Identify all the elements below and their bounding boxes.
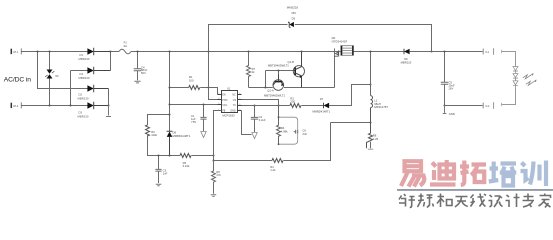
diode D7 MMBD4148T1 [312,97,330,113]
wire PWM row U1 to R2 [242,105,290,107]
zener rail to top loop [209,25,432,52]
watermark small char 9: Jia [539,194,551,208]
resistor R4b 4.99k with C6 snubber loop [277,106,308,146]
main rail fuse to MOSFET [131,51,341,53]
wire VCC row x169 to U1 [170,104,218,106]
MOSFET M1 NTGS4141P [332,36,354,56]
ground triangle below C1 [201,132,206,138]
wire D6 to output [410,51,483,53]
svg-text:MMSZ18: MMSZ18 [287,6,299,10]
svg-text:2.2uF: 2.2uF [259,118,266,122]
terminal J2-2 (LED-) [483,102,493,109]
wire FB pin to divider [214,111,222,156]
watermark small char 6: She2 [489,195,503,207]
node x169 R1 [169,87,171,89]
svg-text:NTGS4141P: NTGS4141P [332,39,348,43]
svg-text:VCC: VCC [222,105,227,107]
resistor R2 200 [290,97,301,108]
node rail L1 top [370,51,372,53]
node CS junction [278,105,280,107]
svg-text:MBR120: MBR120 [401,60,412,64]
node bridge neg [108,105,110,107]
node FB lower [213,160,215,162]
watermark big char 5: Xun (blue) [521,161,547,187]
svg-text:M1: M1 [332,36,336,40]
svg-text:MSS1278T: MSS1278T [374,105,388,109]
svg-text:5: 5 [239,109,240,111]
svg-text:6A: 6A [124,44,128,48]
svg-text:D5: D5 [292,16,296,20]
node rail x37 [37,51,39,53]
svg-text:MBT3946DWLT1: MBT3946DWLT1 [268,63,290,67]
node TVS bottom [49,105,51,107]
watermark small char 3: He [437,194,452,208]
node switch at L1 [370,84,372,86]
ground below R6 [211,195,216,197]
inductor L1 68uH [371,52,389,123]
svg-text:R4: R4 [281,126,285,130]
wire GND pin to C2 ground [242,111,252,135]
svg-text:GND: GND [449,112,455,116]
svg-text:EN: EN [222,95,226,97]
wire emitter row [249,87,335,89]
svg-text:AC/DC in: AC/DC in [4,76,31,83]
LED D12 [513,81,518,88]
main rail MOSFET to D6 [354,51,405,53]
svg-text:7: 7 [239,98,240,100]
svg-text:100: 100 [189,78,194,82]
svg-text:CS: CS [233,100,237,102]
watermark small char 8: Zhuan [523,194,535,208]
wire CS pin row [242,100,279,106]
node D8 bottom row [169,155,171,157]
svg-text:3: 3 [218,103,219,105]
svg-text:110k: 110k [151,133,157,137]
wire output return [445,105,483,107]
node rail C4 [137,51,139,53]
watermark small char 7: Ji [506,194,520,208]
wire sense row to L1 [331,122,371,124]
wire input top to bridge [21,51,88,53]
resistor R7 2k [247,52,256,88]
terminal J1-1 (AC input top) [11,48,21,54]
svg-text:8: 8 [239,93,240,95]
svg-text:1.2k: 1.2k [270,168,276,172]
wire R5 to FB node [192,155,214,157]
wire D7 to switch node [329,85,370,106]
svg-text:MBT3946DWLT1: MBT3946DWLT1 [264,94,286,98]
svg-text:D-2: D-2 [486,106,490,108]
capacitor C4 68nF 50V [134,52,148,81]
svg-text:2: 2 [218,98,219,100]
LED D11 [513,74,518,81]
svg-text:0.25: 0.25 [373,137,379,141]
capacitor C2 2.2uF [251,106,266,133]
svg-text:MBR130: MBR130 [79,76,90,80]
zener diode D5 MMSZ18 15V [287,6,299,28]
tick LED loop ends [501,50,503,107]
svg-text:MBR130: MBR130 [78,97,89,101]
svg-text:16V: 16V [448,86,453,90]
svg-text:200: 200 [290,100,295,104]
diode D1 MBR130 [79,48,111,61]
terminal J2-1 (LED+) [483,48,493,55]
wire gate column [334,56,336,88]
wire input bottom to bridge [21,105,88,107]
node C2 top [254,105,256,107]
capacitor C1 1uF [191,105,207,132]
svg-text:15V: 15V [291,11,296,15]
diode D4 MBR130 [79,67,111,80]
ground below R8 [368,148,373,150]
resistor R5 3.24k [180,154,191,168]
watermark small char 4: Tian [455,197,468,208]
wire VIN column from rail [209,52,218,100]
resistor R3 110k [146,125,158,137]
node rail top loop right [431,51,433,53]
node rail Q1-B collector [301,51,303,53]
svg-text:MMBD4148T1: MMBD4148T1 [173,134,191,138]
terminal J1-2 (AC input bottom) [11,102,21,108]
wire R3 branch [148,115,170,126]
wire R2 to D7 [301,105,323,107]
resistor R6 27k [212,161,222,194]
diode D2 MBR130 [78,85,109,101]
svg-text:27k: 27k [216,173,221,177]
svg-text:50V: 50V [141,71,146,75]
watermark divider line [397,189,553,191]
node rail R7 [248,51,250,53]
node rail x169 [169,51,171,53]
wire R3 bottom to feedback row [148,135,181,155]
watermark big char 4: Pei (blue) [489,162,517,186]
wire FB jog down [213,156,215,161]
svg-text:Q1-B: Q1-B [288,60,295,64]
diode D3 MBR130 [78,102,109,119]
node C1 top [203,104,205,106]
svg-text:2nF: 2nF [302,132,307,136]
svg-text:Q1-A: Q1-A [267,89,274,93]
svg-text:1: 1 [218,93,219,95]
capacitor C5 10uF 16V [441,52,455,106]
wire bridge to fuse [111,51,120,53]
node x169 VCC row [169,104,171,106]
node C5 bottom [444,105,446,107]
wire column line1 to D2 row [38,52,88,89]
wire column line2 to D4 row [71,71,88,106]
node FB join [213,155,215,157]
node rail C5 [444,51,446,53]
svg-text:NC: NC [232,95,236,97]
node C3 top [158,155,160,157]
node bridge pos [110,51,112,53]
transistor Q1-B MBT3946DWLT1 [268,52,305,88]
svg-text:MMBD4148T1: MMBD4148T1 [312,110,330,114]
node line2 bottom [70,105,72,107]
svg-text:MCP1630: MCP1630 [222,114,235,118]
wire startup column x169 [169,52,171,132]
svg-text:MBR130: MBR130 [78,115,89,119]
watermark big char 1: Yi (pink) [401,161,424,186]
wire R1 to VIN column [200,87,208,89]
node rail x208 [208,51,210,53]
net label GND [443,106,455,117]
LED D10 [513,66,518,73]
svg-text:4.99k: 4.99k [281,130,288,134]
node R1 junction [208,87,210,89]
wire Q1 base bus [266,71,295,88]
capacitor C3 1nF [155,156,167,184]
node Q1-A base tap [278,70,280,72]
svg-text:D9: D9 [56,76,60,78]
watermark small char 2: Pin [418,194,434,208]
transistor Q1-A MBT3946DWLT1 [264,75,286,98]
wire R1 row [170,87,189,89]
wire bridge negative bus [108,89,110,106]
node TVS top [49,51,51,53]
svg-text:6: 6 [239,104,240,106]
svg-text:D7: D7 [320,97,324,101]
node x169 R3 branch [169,114,171,116]
node base bus left [265,87,267,89]
ground below C3 [156,184,162,186]
wire EN pin feed [209,88,218,95]
svg-text:Y5V: Y5V [191,120,196,124]
IC U1 MCP1630 [218,86,242,117]
svg-text:1nF: 1nF [163,172,168,176]
watermark small char 1: She [399,194,415,208]
resistor R1 100 [189,75,200,89]
svg-text:1H-2: 1H-2 [13,106,19,108]
watermark big char 3: Tuo (pink) [460,161,486,186]
wire R4 to sense column [284,123,331,161]
resistor R4 1.2k [270,159,283,172]
diode D8 MMBD4148T1 [167,131,191,156]
svg-text:3.24k: 3.24k [183,164,190,168]
resistor R8 0.25 [367,123,379,149]
wire FB row right [214,160,273,162]
svg-text:MBR130: MBR130 [79,57,90,61]
wire LED string loop [502,52,516,105]
TVS diode D9 across input [45,52,59,106]
wire bridge positive bus [110,52,112,71]
svg-text:FB: FB [222,111,225,113]
svg-text:GND: GND [230,111,235,113]
svg-text:TC: TC [233,105,236,107]
svg-text:1H-1: 1H-1 [13,52,19,54]
fuse F1 6A [119,41,131,54]
node sense at L1 [370,122,372,124]
diode D6 MBR120 output [401,49,412,65]
ground bridge return [106,106,111,117]
ground below C4 [134,81,140,83]
svg-text:PHO: PHO [222,100,227,102]
svg-text:D-1: D-1 [486,52,490,54]
LED light arrows [523,73,537,85]
watermark small char 5: Xian [471,194,487,207]
ground triangle below C2 [252,133,257,139]
watermark big char 2: Di (pink) [430,160,456,185]
svg-text:U1: U1 [227,86,231,90]
